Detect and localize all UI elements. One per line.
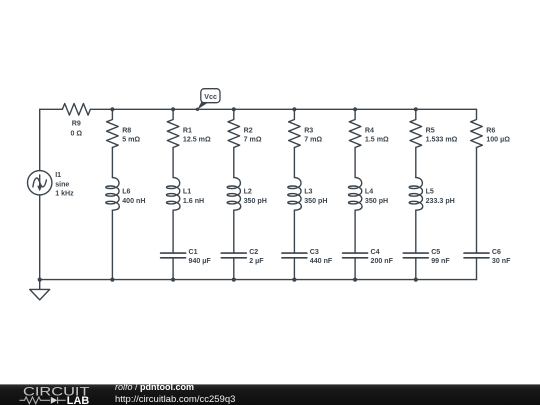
inductor L4 <box>348 178 362 211</box>
resistor R1 <box>167 109 179 147</box>
inductor L5 <box>409 178 423 211</box>
svg-text:L4: L4 <box>365 188 373 196</box>
inductor L2 <box>227 178 241 211</box>
svg-text:R4: R4 <box>365 126 374 134</box>
inductor L1 <box>166 178 180 211</box>
wire <box>172 210 174 253</box>
svg-text:R1: R1 <box>183 126 192 134</box>
wire <box>354 148 356 178</box>
svg-text:L1: L1 <box>183 188 191 196</box>
capacitor C2 <box>221 253 246 280</box>
svg-text:R6: R6 <box>486 126 495 134</box>
wire top bus left segment <box>40 108 63 110</box>
wire <box>293 210 295 253</box>
svg-text:C4: C4 <box>371 248 380 256</box>
svg-text:rolfo / pdntool.com: rolfo / pdntool.com <box>115 382 194 392</box>
resistor R2 <box>228 109 240 147</box>
svg-text:940 µF: 940 µF <box>189 257 212 265</box>
node junction dots bottom rail <box>38 278 418 282</box>
wire <box>111 210 113 279</box>
current source I1 <box>28 171 52 195</box>
svg-text:0 Ω: 0 Ω <box>70 130 82 138</box>
wire left column bottom <box>39 195 41 280</box>
resistor R3 <box>289 109 301 147</box>
resistor R4 <box>349 109 361 147</box>
svg-text:5 mΩ: 5 mΩ <box>122 135 140 143</box>
svg-text:233.3 pH: 233.3 pH <box>426 197 455 205</box>
svg-text:440 nF: 440 nF <box>310 257 333 265</box>
wire left column top <box>39 109 41 170</box>
svg-text:1.6 nH: 1.6 nH <box>183 197 204 205</box>
svg-text:350 pH: 350 pH <box>304 197 327 205</box>
svg-text:R5: R5 <box>426 126 435 134</box>
svg-text:R3: R3 <box>304 126 313 134</box>
svg-text:R9: R9 <box>72 120 81 128</box>
svg-text:Vcc: Vcc <box>204 93 217 101</box>
capacitor C3 <box>282 253 307 280</box>
wire bottom rail <box>40 279 477 281</box>
svg-text:2 µF: 2 µF <box>249 257 264 265</box>
inductor L3 <box>288 178 302 211</box>
svg-text:L6: L6 <box>122 188 130 196</box>
wire <box>111 148 113 178</box>
resistor R5 <box>410 109 422 147</box>
svg-text:7 mΩ: 7 mΩ <box>304 135 322 143</box>
wire <box>415 210 417 253</box>
ground <box>30 280 50 300</box>
svg-text:7 mΩ: 7 mΩ <box>244 135 262 143</box>
svg-text:350 pH: 350 pH <box>365 197 388 205</box>
svg-text:350 pH: 350 pH <box>244 197 267 205</box>
wire <box>172 148 174 178</box>
svg-text:C3: C3 <box>310 248 319 256</box>
svg-text:I1: I1 <box>55 171 61 179</box>
capacitor C1 <box>161 253 186 280</box>
logo schematic squiggle <box>20 397 66 404</box>
wire <box>233 210 235 253</box>
svg-text:sine: sine <box>55 180 69 188</box>
capacitor C4 <box>343 253 368 280</box>
resistor R9 <box>62 104 90 116</box>
resistor R6 <box>471 109 483 147</box>
capacitor C6 <box>464 253 489 280</box>
wire <box>354 210 356 253</box>
svg-text:C5: C5 <box>431 248 440 256</box>
wire top bus <box>90 108 476 110</box>
svg-text:http://circuitlab.com/cc259q3: http://circuitlab.com/cc259q3 <box>115 394 235 405</box>
svg-text:L2: L2 <box>244 188 252 196</box>
inductor L6 <box>106 178 120 211</box>
svg-text:L5: L5 <box>426 188 434 196</box>
svg-text:L3: L3 <box>304 188 312 196</box>
svg-text:LAB: LAB <box>67 395 90 405</box>
svg-text:C6: C6 <box>492 248 501 256</box>
svg-text:30 nF: 30 nF <box>492 257 511 265</box>
svg-text:R8: R8 <box>122 126 131 134</box>
footer bar <box>0 384 540 405</box>
wire <box>293 148 295 178</box>
svg-text:1.5 mΩ: 1.5 mΩ <box>365 135 389 143</box>
wire <box>476 148 478 254</box>
capacitor C5 <box>403 253 428 280</box>
node junction dots top bus <box>110 107 418 111</box>
resistor R8 <box>107 109 119 147</box>
svg-text:200 nF: 200 nF <box>371 257 394 265</box>
svg-text:C2: C2 <box>249 248 258 256</box>
wire <box>233 148 235 178</box>
svg-text:12.5 mΩ: 12.5 mΩ <box>183 135 211 143</box>
net flag Vcc <box>196 89 220 111</box>
svg-text:100 µΩ: 100 µΩ <box>486 135 510 143</box>
svg-text:1.533 mΩ: 1.533 mΩ <box>426 135 458 143</box>
svg-text:400 nH: 400 nH <box>122 197 145 205</box>
svg-text:1 kHz: 1 kHz <box>55 190 74 198</box>
wire <box>415 148 417 178</box>
svg-text:C1: C1 <box>189 248 198 256</box>
svg-text:R2: R2 <box>244 126 253 134</box>
svg-text:99 nF: 99 nF <box>431 257 450 265</box>
